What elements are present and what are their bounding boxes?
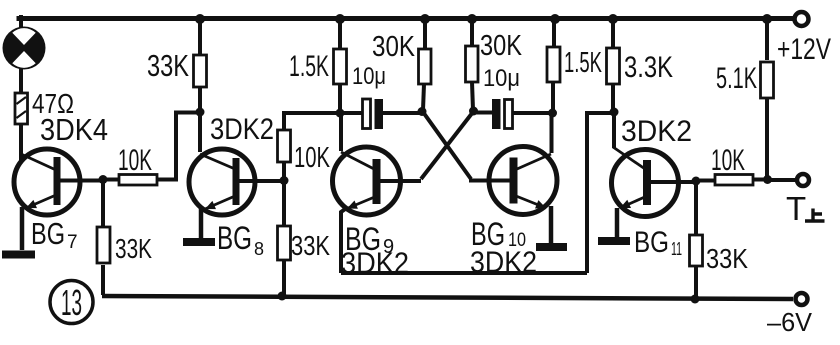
resistor 10K output bbox=[700, 175, 764, 186]
svg-text:33K: 33K bbox=[291, 230, 330, 261]
node top rail 1.5K left bbox=[335, 14, 345, 24]
svg-text:3DK4: 3DK4 bbox=[40, 112, 108, 147]
resistor 10K vertical (BG8 base) bbox=[278, 130, 291, 162]
node BG8 base bbox=[280, 176, 289, 185]
wire node down to BG11 collector bbox=[612, 113, 616, 148]
wire 1.5K to node bbox=[338, 84, 342, 112]
svg-text:33K: 33K bbox=[147, 48, 189, 83]
svg-text:30K: 30K bbox=[480, 30, 523, 62]
node BG11 collector bbox=[610, 108, 619, 117]
svg-text:10μ: 10μ bbox=[352, 63, 386, 90]
lamp EL1 bbox=[3, 27, 46, 70]
wire lamp to 47ohm bbox=[19, 64, 23, 93]
resistor 47ohm bbox=[15, 93, 28, 124]
wire base node down bbox=[101, 181, 105, 230]
node BG7 base bbox=[99, 175, 108, 184]
wire top +12V rail bbox=[19, 16, 793, 21]
wire BG7 emitter to ground bbox=[20, 207, 25, 250]
resistor 5.1K bbox=[761, 62, 774, 98]
wire cross diagonal left (to BG10 base) bbox=[423, 112, 510, 181]
svg-text:BG: BG bbox=[634, 226, 669, 259]
wire node to BG8 collector bbox=[198, 113, 202, 152]
svg-text:BG: BG bbox=[31, 216, 65, 251]
ground BG11 bbox=[598, 237, 630, 245]
svg-text:7: 7 bbox=[67, 232, 78, 253]
svg-text:11: 11 bbox=[671, 239, 682, 259]
svg-text:10K: 10K bbox=[294, 142, 330, 174]
wire 1.5K to node bbox=[551, 82, 555, 112]
wire rail to 1.5K bbox=[338, 19, 342, 49]
wire bottom rail bbox=[102, 296, 793, 299]
wire 30K to node bbox=[423, 84, 424, 110]
node top rail 1.5K right bbox=[550, 14, 560, 24]
svg-text:3DK2: 3DK2 bbox=[341, 247, 409, 280]
transistor BG10 bbox=[489, 147, 557, 215]
wire rail to 3.3K right bbox=[611, 19, 615, 48]
wire 30K to node bbox=[472, 82, 473, 110]
node cross left bbox=[418, 107, 427, 116]
svg-text:8: 8 bbox=[254, 239, 264, 259]
node top rail 3.3K left bbox=[195, 14, 205, 24]
node output bbox=[763, 175, 772, 184]
resistor 10K horizontal bbox=[106, 112, 198, 185]
node bottom rail BG11 33K bbox=[691, 295, 700, 304]
node BG10 collector bbox=[548, 109, 557, 118]
transistor BG8 bbox=[189, 149, 281, 215]
wire BG11 emitter to ground bbox=[615, 208, 620, 237]
svg-text:–6V: –6V bbox=[767, 307, 813, 337]
wire BG10 emitter to ground bbox=[549, 206, 554, 243]
wire BG8 base node down bbox=[282, 183, 286, 227]
resistor 33K (BG11) bbox=[690, 235, 703, 266]
node top rail 5.1K bbox=[762, 14, 772, 24]
wire rail to 3.3K bbox=[198, 19, 202, 55]
wire rail to 30K left bbox=[423, 19, 427, 49]
wire 33K to bottom rail bbox=[101, 265, 105, 295]
ground BG10 bbox=[536, 243, 567, 251]
label T subscript symbol bbox=[805, 209, 825, 222]
node BG8 collector bbox=[196, 108, 205, 117]
wire node down to BG10 bbox=[550, 114, 554, 153]
node top rail 30K right bbox=[467, 14, 477, 24]
wire output node to terminal bbox=[770, 178, 796, 182]
svg-text:33K: 33K bbox=[115, 233, 152, 264]
node cross right bbox=[469, 107, 478, 116]
transistor BG11 bbox=[612, 147, 694, 217]
svg-text:13: 13 bbox=[61, 282, 82, 323]
svg-text:3.3K: 3.3K bbox=[624, 51, 673, 84]
wire 3.3K to node bbox=[198, 87, 202, 112]
wire node down bbox=[694, 183, 698, 235]
wire BG9 emitter down bbox=[341, 207, 348, 273]
ground BG8 bbox=[183, 238, 215, 246]
svg-text:3DK2: 3DK2 bbox=[470, 246, 537, 279]
svg-text:10μ: 10μ bbox=[483, 65, 520, 92]
wire 47ohm to BG7 collector bbox=[19, 124, 23, 158]
wire 3.3K to node bbox=[611, 84, 615, 110]
resistor 30K left bbox=[419, 49, 432, 84]
svg-text:T: T bbox=[786, 190, 806, 227]
wire rail to 5.1K bbox=[765, 19, 769, 60]
transistor BG9 bbox=[333, 147, 422, 215]
capacitor C2 10u bbox=[475, 99, 551, 129]
node BG11 base bbox=[692, 177, 701, 186]
resistor 33K (BG8 base) bbox=[278, 226, 291, 260]
svg-text:33K: 33K bbox=[706, 243, 748, 274]
wire rail to 30K right bbox=[470, 19, 474, 46]
wire cross diagonal right (to BG9 base) bbox=[421, 112, 473, 179]
capacitor C1 10u bbox=[344, 99, 420, 129]
svg-text:1.5K: 1.5K bbox=[289, 50, 329, 83]
svg-text:10K: 10K bbox=[118, 144, 152, 177]
wire BG8 base node up bbox=[282, 162, 286, 178]
wire 5.1K down to output node bbox=[765, 97, 769, 177]
svg-text:+12V: +12V bbox=[777, 33, 831, 66]
node bottom rail BG8 33K bbox=[278, 292, 287, 301]
wire 33K to bottom rail bbox=[694, 266, 698, 299]
transistor BG7 bbox=[14, 149, 100, 215]
resistor 30K right bbox=[466, 46, 479, 82]
node top rail 3.3K right bbox=[608, 14, 618, 24]
terminal -6V bbox=[796, 293, 808, 305]
wire 33K to bottom rail bbox=[282, 260, 286, 296]
resistor 33K (BG7 base) bbox=[97, 227, 110, 263]
wire 10K up and right to BG9 collector node bbox=[282, 113, 339, 130]
wire bottom of coupling rectangle bbox=[341, 271, 587, 275]
node BG9 collector bbox=[336, 109, 345, 118]
wire node down to BG9 bbox=[339, 114, 343, 151]
terminal output T bbox=[797, 174, 809, 186]
resistor 3.3K right bbox=[607, 48, 620, 84]
svg-text:1.5K: 1.5K bbox=[564, 47, 602, 79]
svg-text:10K: 10K bbox=[711, 144, 745, 177]
svg-text:3DK2: 3DK2 bbox=[621, 115, 692, 148]
svg-text:3DK2: 3DK2 bbox=[210, 113, 274, 146]
svg-text:BG: BG bbox=[217, 220, 252, 256]
terminal +12V bbox=[795, 12, 809, 26]
wire lamp drop bbox=[19, 17, 23, 29]
wire rail to 1.5K right bbox=[552, 19, 556, 47]
wire right side of coupling rectangle bbox=[585, 113, 611, 273]
resistor 3.3K left bbox=[194, 55, 207, 87]
node top rail 30K left bbox=[420, 14, 430, 24]
resistor 1.5K left bbox=[334, 49, 347, 84]
svg-text:5.1K: 5.1K bbox=[716, 62, 757, 95]
resistor 1.5K right bbox=[547, 47, 560, 82]
ground BG7 bbox=[2, 251, 35, 259]
wire BG8 emitter to ground bbox=[199, 208, 204, 238]
svg-text:30K: 30K bbox=[372, 31, 416, 63]
figure number 13 circle bbox=[50, 281, 93, 324]
